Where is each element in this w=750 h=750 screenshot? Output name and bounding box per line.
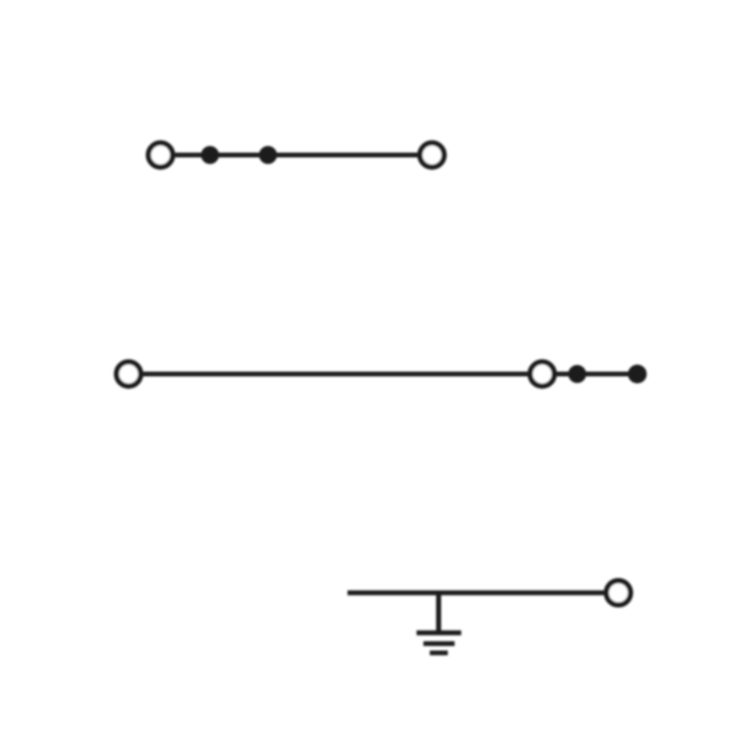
- wire ground stem: [436, 593, 441, 633]
- terminal clamp level 2 left (open circle): [117, 362, 141, 386]
- ground bar 1: [417, 630, 462, 635]
- ground bar 3: [430, 651, 448, 656]
- junction dot level 1 left: [201, 146, 219, 164]
- ground bar 2: [423, 641, 454, 646]
- junction dot level 1 right: [259, 146, 277, 164]
- terminal clamp level 1 left (open circle): [148, 143, 172, 167]
- terminal clamp level 3 right (open circle): [606, 581, 630, 605]
- wire level 2 conductor: [129, 372, 638, 377]
- junction dot level 2 inner: [568, 365, 586, 383]
- wire level 3 conductor: [348, 590, 619, 595]
- terminal clamp level 1 right (open circle): [420, 143, 444, 167]
- junction dot level 2 end: [628, 365, 647, 384]
- wire level 1 conductor: [161, 153, 433, 158]
- terminal clamp level 2 mid (open circle): [530, 362, 554, 386]
